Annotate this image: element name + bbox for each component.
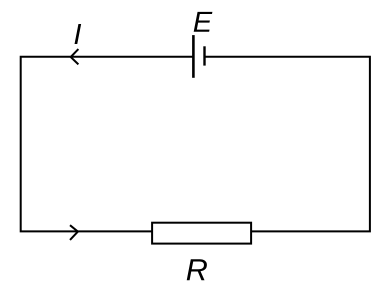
wire loop (left, bottom, right sides and top wire with gap for battery) (21, 57, 370, 232)
resistor R body (152, 223, 251, 244)
battery E long plate (positive) (192, 35, 195, 78)
label R (187, 259, 207, 280)
battery E short plate (negative) (203, 46, 205, 65)
label I (current) (75, 24, 82, 44)
current arrow on bottom wire (pointing right) (70, 225, 78, 240)
label E (194, 12, 213, 32)
current arrow on top wire (pointing left) (71, 49, 79, 64)
